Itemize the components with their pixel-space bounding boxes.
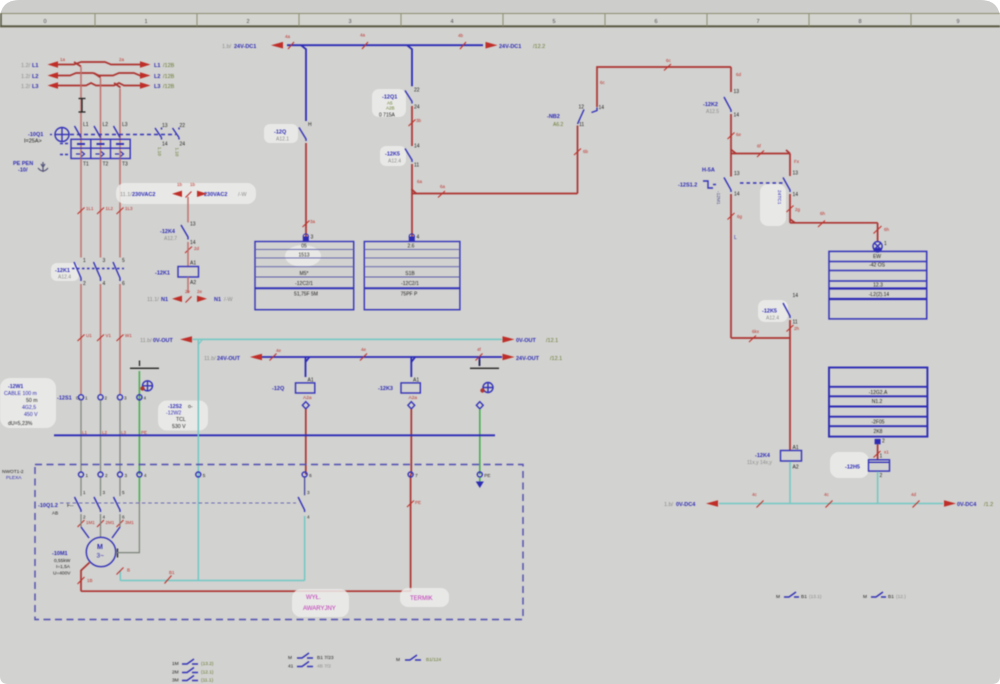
- svg-text:11: 11: [793, 320, 798, 326]
- red slash below motor: [78, 577, 93, 584]
- svg-text:/1.2: /1.2: [984, 502, 993, 508]
- wire tick: [303, 219, 316, 227]
- svg-text:(11.1): (11.1): [201, 678, 214, 684]
- svg-text:1: 1: [83, 490, 86, 495]
- svg-text:1.10: 1.10: [175, 148, 180, 157]
- svg-text:6kx: 6kx: [752, 329, 760, 334]
- svg-text:530 V: 530 V: [172, 424, 186, 430]
- svg-text:3b: 3b: [416, 118, 422, 123]
- svg-text:L3: L3: [32, 84, 38, 90]
- svg-text:3: 3: [125, 473, 128, 478]
- svg-text:3~: 3~: [97, 553, 105, 560]
- svg-text:5: 5: [122, 258, 125, 264]
- svg-text:S1B: S1B: [405, 271, 415, 277]
- svg-text:4: 4: [307, 515, 310, 520]
- wire coil to N1: [187, 277, 189, 293]
- svg-text:PLEXA: PLEXA: [6, 475, 22, 481]
- svg-text:22: 22: [180, 123, 186, 129]
- label WYL text: [292, 589, 349, 617]
- wire coil K4 to 0V bus: [789, 462, 791, 504]
- motor M1: [52, 537, 118, 576]
- svg-text:1L3: 1L3: [125, 206, 133, 211]
- right riser from junction: [789, 154, 791, 177]
- svg-text:M5*: M5*: [300, 271, 309, 277]
- svg-text:4: 4: [144, 396, 147, 401]
- PE text and ground anchor: [13, 161, 48, 174]
- wire tick: [574, 149, 589, 156]
- svg-text:51,75F 5M: 51,75F 5M: [294, 292, 318, 298]
- svg-text:L2: L2: [154, 74, 160, 80]
- wire K5b down: [789, 320, 791, 451]
- svg-text:-12H5: -12H5: [845, 465, 860, 471]
- svg-text:6: 6: [309, 473, 312, 478]
- svg-text:4c: 4c: [752, 492, 758, 497]
- wire L1: [48, 61, 151, 68]
- wire coil Q down: [305, 409, 307, 475]
- svg-text:1a: 1a: [60, 57, 66, 62]
- teal bottom link: [120, 571, 304, 581]
- svg-text:M: M: [776, 594, 780, 600]
- svg-text:L2: L2: [102, 430, 108, 435]
- svg-text:1.2/: 1.2/: [21, 84, 31, 90]
- svg-text:3: 3: [307, 490, 310, 495]
- svg-text:A12.5: A12.5: [706, 109, 719, 115]
- svg-text:-12K3: -12K3: [378, 386, 393, 392]
- breaker aux contact 13-14: [155, 123, 168, 156]
- cursor I-beam: [79, 99, 86, 113]
- svg-text:TERMIK: TERMIK: [410, 596, 433, 602]
- breaker pole 2: [94, 122, 109, 168]
- svg-text:(12.): (12.): [896, 594, 906, 600]
- svg-text:4e: 4e: [361, 347, 367, 352]
- svg-text:11.b/: 11.b/: [140, 338, 152, 344]
- svg-text:-12K1: -12K1: [55, 268, 70, 274]
- svg-text:0 715A: 0 715A: [379, 113, 396, 119]
- connector diamond: [476, 402, 483, 409]
- svg-text:3M: 3M: [172, 678, 179, 684]
- pin square box L: [303, 234, 314, 242]
- svg-text:6g: 6g: [737, 214, 743, 219]
- svg-text:4a: 4a: [285, 34, 291, 39]
- red slash on teal link: [165, 570, 176, 584]
- svg-text:-10/: -10/: [18, 168, 28, 174]
- bus ticks: [752, 492, 920, 508]
- node label 24V-DC1 left: [222, 44, 256, 50]
- wire risers to box: [410, 475, 412, 592]
- svg-text:0,55kW: 0,55kW: [54, 558, 71, 564]
- svg-text:A12.1: A12.1: [276, 137, 289, 143]
- svg-text:-10Q1: -10Q1: [28, 132, 43, 138]
- svg-text:2a: 2a: [119, 57, 125, 62]
- wire L3: [48, 82, 151, 89]
- svg-text:3: 3: [124, 396, 127, 401]
- svg-text:N1: N1: [214, 297, 221, 303]
- svg-text:A6.2: A6.2: [553, 122, 564, 128]
- svg-text:0V-OUT: 0V-OUT: [516, 338, 537, 344]
- svg-text:1M: 1M: [172, 661, 179, 667]
- svg-text:-12M1: -12M1: [715, 191, 721, 205]
- bus ticks: [270, 347, 483, 361]
- wire contact to box pin: [305, 143, 307, 237]
- svg-text:4B 7/2: 4B 7/2: [317, 664, 331, 670]
- wire drop phase2: [100, 78, 102, 159]
- svg-text:-12C2/1: -12C2/1: [295, 281, 313, 287]
- legend group1: [172, 659, 214, 684]
- svg-text:4: 4: [103, 515, 106, 520]
- legend right item2: [863, 592, 906, 600]
- svg-text:T1: T1: [83, 162, 89, 168]
- svg-text:-42 OS: -42 OS: [869, 263, 886, 269]
- svg-text:Fx: Fx: [794, 159, 800, 164]
- svg-text:2.6: 2.6: [408, 244, 415, 250]
- svg-text:0: 0: [43, 19, 46, 25]
- drop wire 2: [407, 45, 412, 86]
- svg-text:-12Q: -12Q: [272, 386, 285, 392]
- svg-text:-12K5: -12K5: [385, 152, 400, 158]
- wire S1.2 down: [730, 194, 732, 338]
- svg-text:-12W1: -12W1: [8, 384, 23, 390]
- svg-text:41: 41: [288, 664, 294, 670]
- svg-text:5: 5: [122, 490, 125, 495]
- svg-text:N1: N1: [161, 297, 168, 303]
- ruler band: [0, 14, 1000, 27]
- svg-text:4e: 4e: [276, 348, 282, 353]
- svg-text:/12.1: /12.1: [550, 356, 562, 362]
- stubs to motor: [81, 514, 120, 538]
- svg-text:-10Q1.2: -10Q1.2: [38, 503, 58, 509]
- disconnect handle right: [470, 357, 499, 393]
- svg-text:13: 13: [190, 222, 196, 228]
- svg-text:2M1: 2M1: [106, 520, 115, 525]
- svg-text:450 V: 450 V: [24, 412, 38, 418]
- svg-text:4G2,5: 4G2,5: [22, 405, 36, 411]
- svg-text:2: 2: [83, 515, 86, 520]
- svg-text:A12.4: A12.4: [58, 275, 71, 281]
- wire tick: [409, 118, 422, 126]
- svg-text:1b: 1b: [177, 182, 183, 187]
- svg-text:A2a: A2a: [409, 395, 418, 401]
- contactor K1 poles: [51, 258, 125, 287]
- svg-text:-12W2: -12W2: [166, 411, 181, 417]
- svg-text:24V-DC1: 24V-DC1: [499, 44, 521, 50]
- contact 12K5 right: [758, 293, 798, 326]
- svg-text:T2: T2: [103, 162, 109, 168]
- svg-text:1.2/: 1.2/: [21, 63, 31, 69]
- red slash PE label: [407, 500, 421, 507]
- svg-text:L1: L1: [83, 122, 89, 128]
- svg-text:-12Q: -12Q: [274, 130, 287, 136]
- svg-text:A12.7: A12.7: [164, 236, 177, 242]
- svg-text:-12K4: -12K4: [160, 229, 176, 235]
- svg-text:2d: 2d: [194, 246, 200, 251]
- wire junction branch right: [731, 144, 790, 158]
- svg-text:230VAC2: 230VAC2: [204, 192, 227, 198]
- svg-text:1L1: 1L1: [86, 206, 94, 211]
- svg-text:4a: 4a: [360, 33, 366, 38]
- svg-text:11.b/: 11.b/: [204, 356, 216, 362]
- svg-text:-10M1: -10M1: [52, 551, 68, 557]
- svg-text:1b: 1b: [190, 182, 196, 187]
- wire ticks over phases y337: [78, 333, 133, 341]
- svg-text:1M1: 1M1: [86, 520, 95, 525]
- svg-text:/12B: /12B: [163, 84, 175, 90]
- wire to NB2 horizontal: [411, 179, 577, 198]
- svg-text:L1: L1: [32, 63, 38, 69]
- wire PE green left: [138, 371, 140, 475]
- coil 12Q drop: [305, 357, 307, 377]
- svg-text:W1: W1: [125, 333, 132, 338]
- disconnect handle left: [130, 361, 159, 391]
- svg-text:11.1/: 11.1/: [120, 192, 132, 198]
- bus 24V-DC1: [271, 42, 498, 49]
- svg-text:0V-OUT: 0V-OUT: [153, 338, 174, 344]
- svg-text:11: 11: [414, 163, 419, 169]
- svg-text:2: 2: [105, 396, 108, 401]
- device table box right-top: [829, 251, 927, 319]
- wire H5 to 0V bus: [877, 472, 879, 504]
- breaker aux contact 21-22: [173, 123, 186, 157]
- wire drop phase1: [80, 67, 82, 159]
- svg-text:A2: A2: [190, 280, 196, 286]
- wire phase2 mid: [100, 159, 102, 258]
- svg-text:8: 8: [858, 19, 861, 25]
- svg-text:05: 05: [301, 244, 307, 250]
- svg-text:6e: 6e: [736, 132, 742, 137]
- svg-text:/12.1: /12.1: [546, 338, 558, 344]
- bus 0V-OUT: [180, 336, 515, 342]
- breaker trip dashes left: [60, 144, 70, 155]
- lamp drop: [874, 223, 890, 242]
- svg-text:2g: 2g: [795, 207, 801, 212]
- svg-text:2: 2: [246, 19, 249, 25]
- coil 12K3 drop: [410, 357, 412, 377]
- svg-text:B1/124: B1/124: [426, 657, 442, 663]
- coil 12K4: [747, 445, 802, 471]
- pin square below box: [875, 439, 885, 445]
- svg-text:/-W: /-W: [238, 192, 247, 198]
- svg-text:4: 4: [417, 235, 420, 241]
- svg-text:PE: PE: [484, 473, 490, 478]
- svg-text:H: H: [308, 122, 312, 128]
- contact NB2 changeover: [547, 105, 604, 129]
- svg-text:2K8: 2K8: [874, 429, 883, 435]
- pressure switch S1.2: [678, 168, 740, 205]
- svg-text:M: M: [863, 594, 867, 600]
- svg-text:B1: B1: [169, 570, 175, 575]
- wire K2 down to junction: [730, 114, 732, 177]
- svg-text:6h: 6h: [820, 211, 826, 216]
- svg-text:-12S1.2: -12S1.2: [678, 183, 697, 189]
- svg-text:PE: PE: [415, 500, 421, 505]
- svg-text:I=25A>: I=25A>: [24, 139, 42, 145]
- svg-text:NWOT1-2: NWOT1-2: [2, 469, 24, 475]
- tick: [787, 325, 800, 332]
- svg-text:4d: 4d: [911, 492, 917, 497]
- svg-text:1: 1: [144, 19, 147, 25]
- svg-text:1: 1: [86, 473, 89, 478]
- node 24V-OUT labels: [204, 356, 562, 362]
- svg-text:WYŁ.: WYŁ.: [306, 595, 321, 601]
- svg-text:PE PEN: PE PEN: [13, 161, 33, 167]
- svg-text:4c: 4c: [824, 492, 830, 497]
- svg-text:230VAC2: 230VAC2: [132, 192, 155, 198]
- node label 1.2/L2: [21, 74, 175, 80]
- PE wire to motor: [116, 477, 140, 552]
- wire phase3 mid: [119, 159, 121, 258]
- svg-text:A12.4: A12.4: [766, 316, 779, 322]
- svg-text:6c: 6c: [666, 58, 672, 63]
- svg-text:A1: A1: [190, 261, 196, 267]
- wire coil K3 down: [410, 409, 412, 475]
- svg-text:24: 24: [414, 105, 420, 111]
- coil 12K3: [378, 378, 420, 401]
- wire ticks on left riser: [728, 213, 743, 241]
- node label 24V-DC1 right: [499, 44, 545, 50]
- lamp branch horizontal: [790, 211, 878, 227]
- svg-text:B1 7/23: B1 7/23: [317, 655, 334, 661]
- node 230VAC2: [120, 192, 247, 198]
- svg-text:dU=5,23%: dU=5,23%: [8, 421, 33, 427]
- cable W1 text block: [0, 378, 56, 428]
- svg-text:L: L: [734, 235, 737, 241]
- svg-text:N1.2: N1.2: [872, 399, 883, 405]
- svg-text:CABLE 100 m: CABLE 100 m: [4, 391, 37, 397]
- breaker manual drive symbol: [50, 128, 69, 142]
- svg-text:1: 1: [884, 241, 887, 247]
- svg-text:(13.2): (13.2): [201, 661, 214, 667]
- contact K4: [160, 222, 196, 247]
- gray stubs terminals to switch: [81, 477, 120, 496]
- svg-text:6c: 6c: [600, 80, 606, 85]
- svg-text:-12K4: -12K4: [755, 453, 771, 459]
- svg-text:2M: 2M: [172, 670, 179, 676]
- svg-text:6a: 6a: [417, 179, 423, 184]
- svg-text:2e: 2e: [197, 289, 203, 294]
- bus labels: [664, 502, 993, 508]
- svg-text:2: 2: [882, 439, 885, 445]
- red tag near riser7: [0, 0, 1, 1]
- svg-text:4: 4: [450, 19, 453, 25]
- svg-text:L3: L3: [154, 84, 160, 90]
- green stub PE in box: [476, 477, 484, 488]
- svg-text:-12S2: -12S2: [168, 404, 182, 410]
- svg-text:5: 5: [552, 19, 555, 25]
- svg-text:6: 6: [654, 19, 657, 25]
- svg-text:2: 2: [83, 281, 86, 287]
- svg-text:-12S1: -12S1: [57, 396, 72, 402]
- horn 12H5: [830, 444, 890, 479]
- svg-text:2e: 2e: [185, 289, 191, 294]
- contact 12K5 top: [380, 144, 420, 169]
- svg-text:M: M: [288, 655, 292, 661]
- svg-text:L1: L1: [154, 63, 160, 69]
- wire down to K2: [730, 67, 732, 92]
- svg-text:-12G2.A: -12G2.A: [869, 390, 888, 396]
- svg-text:1.b/: 1.b/: [222, 44, 232, 50]
- tick: [787, 206, 801, 213]
- svg-text:2: 2: [105, 473, 108, 478]
- svg-text:13: 13: [734, 89, 740, 95]
- svg-text:B1: B1: [801, 594, 807, 600]
- svg-text:6b: 6b: [583, 149, 589, 154]
- teal riser from 0V bus: [197, 339, 199, 580]
- breaker thermal-magnetic box: [71, 139, 130, 158]
- svg-text:7: 7: [756, 19, 759, 25]
- svg-text:L1: L1: [82, 430, 88, 435]
- svg-text:0V-DC4: 0V-DC4: [676, 502, 696, 508]
- node 0V-OUT labels: [140, 338, 558, 344]
- legend right item1: [776, 592, 822, 600]
- svg-text:1.b/: 1.b/: [664, 502, 674, 508]
- enclosure name: [2, 469, 24, 481]
- svg-text:A2: A2: [793, 465, 799, 471]
- svg-text:13: 13: [162, 123, 168, 129]
- legend group3: [396, 655, 442, 663]
- svg-text:3: 3: [311, 235, 314, 241]
- svg-text:TCL: TCL: [176, 417, 186, 423]
- svg-text:24V-OUT: 24V-OUT: [217, 356, 241, 362]
- contact6 in box: [298, 477, 310, 519]
- svg-text:5: 5: [203, 473, 206, 478]
- label TERMIK: [400, 588, 449, 607]
- svg-text:14: 14: [599, 105, 605, 111]
- svg-text:1.10: 1.10: [157, 147, 162, 156]
- red slash on teal stub: [117, 568, 131, 575]
- svg-text:4: 4: [144, 473, 147, 478]
- svg-text:-NB2: -NB2: [547, 114, 560, 120]
- svg-text:M: M: [97, 544, 103, 551]
- cable W2 text block: [158, 401, 208, 431]
- svg-text:1: 1: [83, 258, 86, 264]
- wire tick: [728, 132, 742, 139]
- bus wire tags: [285, 33, 466, 50]
- contact 12Q: [264, 122, 312, 143]
- svg-text:PE: PE: [141, 430, 147, 435]
- svg-text:12.3: 12.3: [873, 283, 883, 289]
- svg-text:2h: 2h: [794, 326, 800, 331]
- breaker label -10Q1: [24, 132, 43, 145]
- svg-text:-12C2/1: -12C2/1: [401, 281, 419, 287]
- svg-text:11x,y 14x,y: 11x,y 14x,y: [747, 460, 772, 466]
- cable cores gray: [81, 400, 120, 472]
- breaker pole 3: [114, 122, 129, 168]
- svg-text:/12.2: /12.2: [533, 44, 545, 50]
- svg-text:11: 11: [579, 122, 584, 128]
- red slashes below Q1.2: [78, 520, 135, 527]
- svg-text:(13.1): (13.1): [809, 594, 822, 600]
- breaker linkage dashed: [70, 134, 176, 136]
- wire phase3 low: [119, 284, 121, 394]
- coil K1: [155, 261, 199, 287]
- wire number ticks row y210: [78, 206, 134, 214]
- pin square box R: [409, 234, 420, 242]
- svg-text:22: 22: [414, 88, 420, 94]
- svg-text:/12B: /12B: [163, 74, 175, 80]
- lamp H2: [873, 241, 887, 253]
- svg-text:/12B: /12B: [163, 63, 175, 69]
- svg-text:L2: L2: [103, 122, 109, 128]
- svg-text:6a: 6a: [440, 184, 446, 189]
- svg-text:6d: 6d: [736, 72, 742, 77]
- svg-text:B1: B1: [888, 594, 894, 600]
- svg-text:A2a: A2a: [303, 395, 312, 401]
- svg-text:-12K2: -12K2: [703, 102, 718, 108]
- wire to coil K1: [187, 242, 189, 267]
- svg-text:14: 14: [793, 293, 799, 299]
- wire NB2 pin14 up and across: [597, 67, 731, 107]
- svg-text:B: B: [127, 568, 130, 573]
- wire motor down: [81, 563, 90, 592]
